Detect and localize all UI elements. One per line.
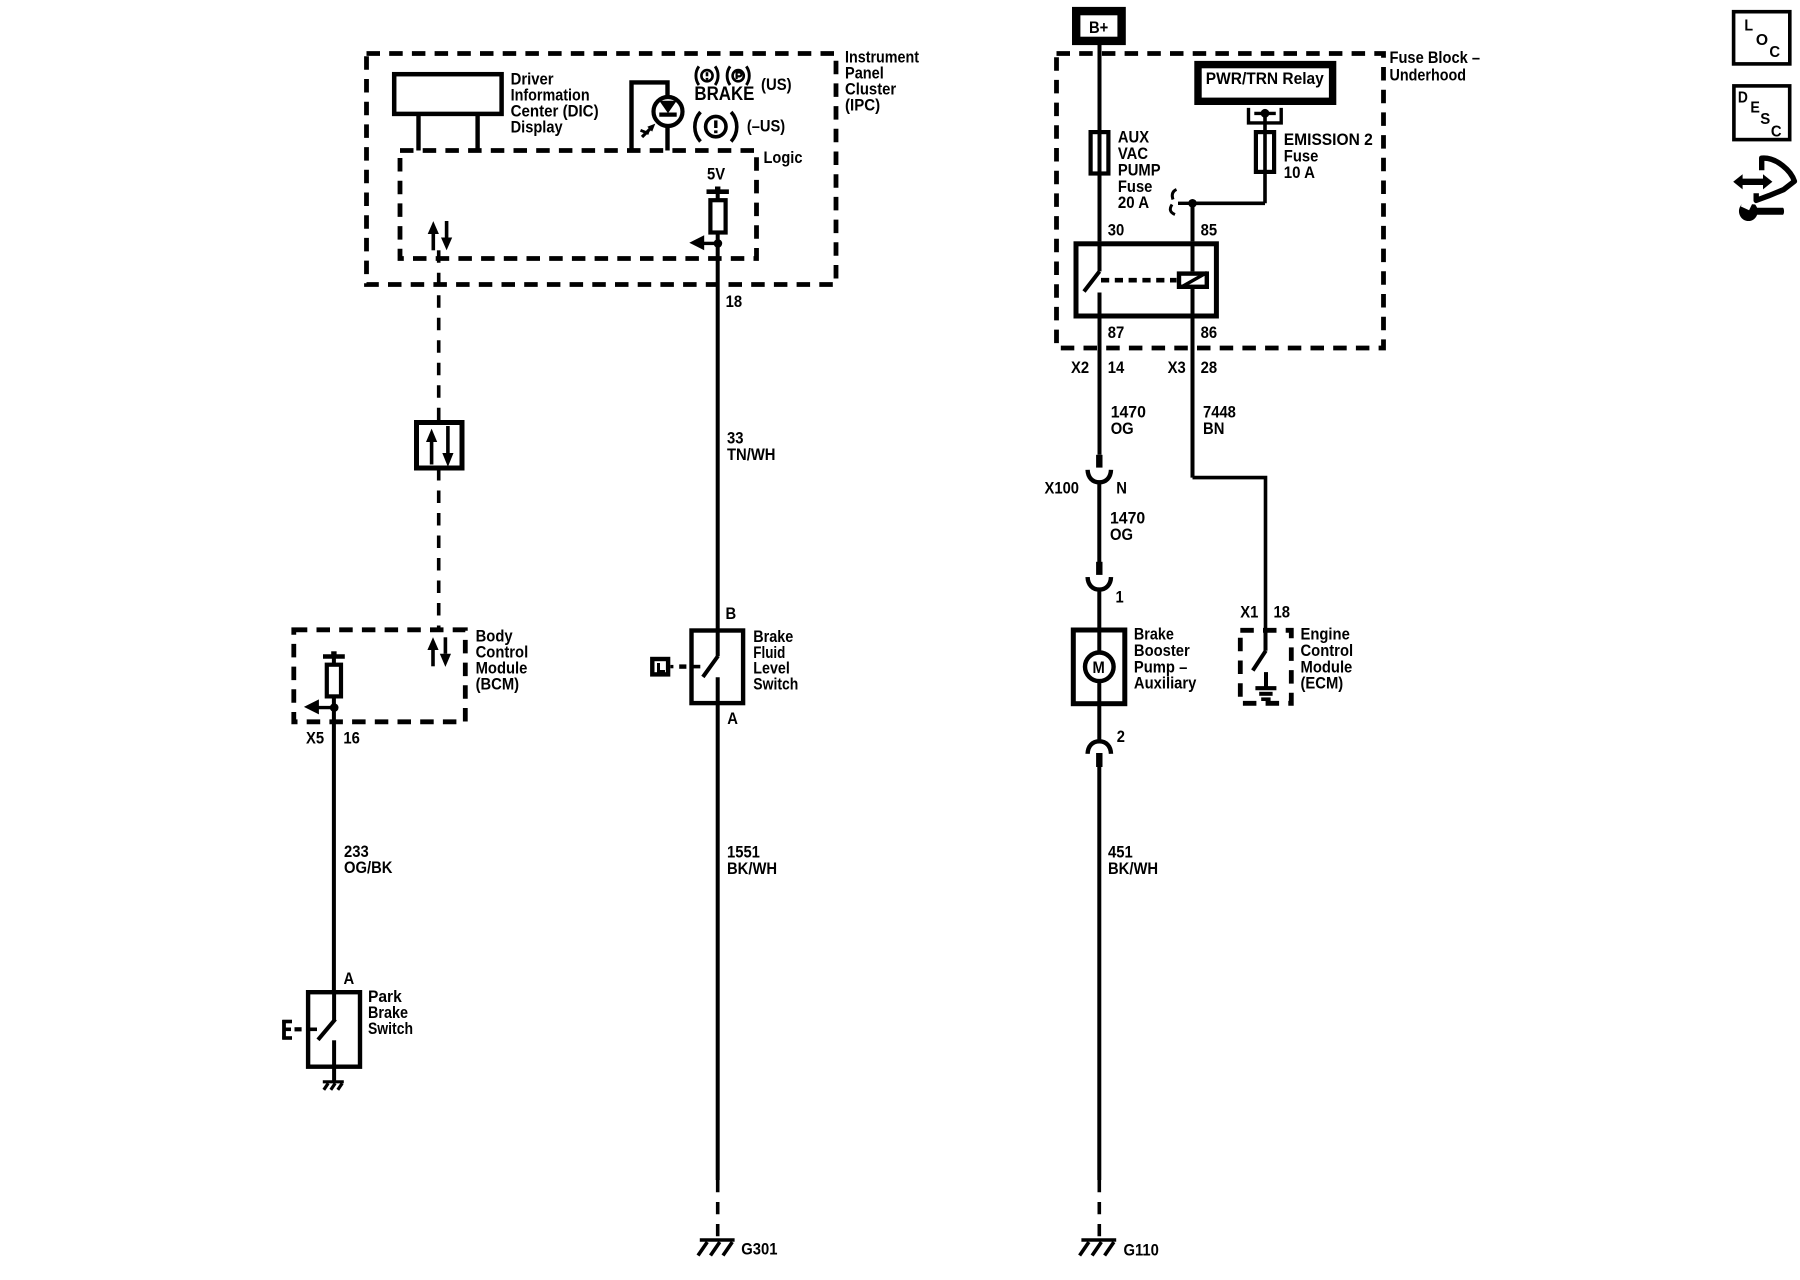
park brake switch blade — [318, 992, 335, 1081]
wire DIC leg right — [475, 114, 479, 151]
brake warning icon (!) (US) — [696, 66, 718, 85]
pin A label park brake — [344, 969, 355, 988]
DIC display box — [394, 74, 501, 114]
wire B+ down — [1098, 45, 1102, 131]
X100 N labels — [1045, 479, 1127, 498]
svg-text:(US): (US) — [761, 75, 792, 94]
svg-text:86: 86 — [1201, 323, 1218, 342]
wire label 1470 OG — [1111, 402, 1146, 437]
LED indicator — [654, 97, 683, 151]
svg-text:28: 28 — [1201, 358, 1218, 377]
dashed wire to G110 — [1098, 1180, 1102, 1239]
svg-text:C: C — [1771, 123, 1782, 140]
up/down arrows in Logic — [428, 221, 453, 250]
dashed wire to G301 — [716, 1180, 720, 1239]
resistor R1 IPC pull-up — [710, 200, 725, 232]
svg-text:OG: OG — [1111, 419, 1134, 438]
relay actuator dashed link — [1101, 278, 1177, 283]
svg-text:M: M — [1093, 658, 1105, 677]
connector labels X2 14 X3 28 — [1071, 358, 1217, 377]
svg-text:20 A: 20 A — [1118, 193, 1149, 212]
svg-text:L: L — [1744, 18, 1753, 35]
svg-text:TN/WH: TN/WH — [727, 445, 776, 464]
fuse block dashed box — [1057, 54, 1384, 349]
wire label 233 OG/BK — [344, 842, 393, 877]
svg-text:14: 14 — [1108, 358, 1125, 377]
wire label 7448 BN — [1203, 402, 1236, 437]
svg-text:OG: OG — [1110, 525, 1133, 544]
connector 1 — [1088, 562, 1124, 607]
wire X100 to conn 1 — [1097, 482, 1101, 562]
brake warning icon ((!)) (-US) — [695, 112, 737, 142]
fuse AUX VAC PUMP 20A — [1091, 131, 1109, 241]
wire conn1 to pump — [1097, 590, 1101, 630]
brake warning icon (P) (US) — [727, 66, 749, 85]
ECM switch — [1253, 628, 1266, 671]
svg-text:Fuse Block –: Fuse Block – — [1390, 48, 1481, 67]
node junction — [330, 703, 339, 712]
motor M — [1085, 630, 1114, 742]
ECM internal ground — [1255, 672, 1276, 699]
Logic dashed box — [400, 151, 757, 259]
wire label 1551 BK/WH — [727, 843, 777, 878]
svg-text:BN: BN — [1203, 419, 1224, 438]
BCM dashed box — [294, 630, 466, 722]
E contact — [282, 1020, 317, 1040]
relay coil — [1179, 241, 1207, 477]
DESC icon — [1734, 86, 1790, 140]
park brake switch box — [308, 992, 360, 1066]
connector labels X1 18 — [1240, 603, 1290, 622]
connector 2 — [1088, 741, 1111, 767]
connector X5 pin 16 labels — [306, 729, 360, 748]
ground park brake switch — [323, 1082, 344, 1090]
svg-text:Logic: Logic — [764, 148, 803, 167]
Logic label — [764, 148, 803, 167]
svg-text:G110: G110 — [1124, 1241, 1159, 1260]
up/down arrows in BCM — [427, 637, 451, 667]
(US) label — [761, 75, 792, 94]
LED lightning arrow — [641, 124, 656, 137]
svg-text:BRAKE: BRAKE — [694, 84, 754, 105]
pin 2 label — [1117, 727, 1125, 746]
dashed wire serial box to BCM — [437, 468, 441, 630]
relay pin labels 30 85 — [1108, 221, 1217, 240]
ground G110 — [1080, 1240, 1117, 1256]
dashed wire logic to serial box — [437, 250, 441, 422]
LED bracket wire — [632, 82, 668, 150]
signal arrow to logic — [689, 235, 718, 250]
IPC dashed box — [367, 54, 837, 285]
connector X100 — [1088, 455, 1111, 483]
svg-text:BK/WH: BK/WH — [1108, 859, 1158, 878]
5V supply tee — [707, 187, 729, 201]
AUX VAC PUMP fuse label — [1118, 128, 1161, 213]
svg-text:X1: X1 — [1240, 603, 1258, 622]
svg-text:30: 30 — [1108, 221, 1125, 240]
svg-text:(ECM): (ECM) — [1301, 674, 1344, 693]
svg-text:5V: 5V — [707, 165, 726, 184]
wire DIC leg left — [416, 114, 420, 151]
svg-text:D: D — [1738, 90, 1748, 107]
BRAKE label — [694, 84, 754, 105]
ECM label — [1301, 625, 1354, 693]
DIC label — [511, 69, 599, 136]
svg-text:C: C — [1769, 44, 1780, 61]
svg-text:(IPC): (IPC) — [845, 95, 880, 114]
svg-text:(BCM): (BCM) — [476, 675, 519, 694]
pump label — [1134, 625, 1197, 693]
brake fluid switch blade — [703, 656, 718, 1180]
brake booster pump box — [1073, 630, 1125, 704]
svg-text:Display: Display — [511, 117, 563, 136]
wire label 1470 OG — [1110, 509, 1145, 544]
svg-text:X2: X2 — [1071, 358, 1089, 377]
relay pin labels 87 86 — [1108, 323, 1217, 342]
wire 18 to B — [716, 233, 720, 657]
5V label — [707, 165, 726, 184]
svg-text:10 A: 10 A — [1284, 163, 1315, 182]
svg-text:O: O — [1756, 32, 1768, 49]
wire 233 OG/BK — [332, 696, 336, 992]
EMISSION 2 fuse label — [1284, 130, 1373, 182]
svg-text:Switch: Switch — [368, 1019, 413, 1038]
PWR/TRN Relay label box — [1198, 65, 1333, 102]
pin 18 label — [726, 292, 743, 311]
wire 7448 BN to ECM — [1193, 478, 1266, 628]
wire label 451 BK/WH — [1108, 843, 1158, 878]
(-US) label — [747, 117, 785, 136]
ground G301 — [698, 1240, 735, 1256]
svg-text:OG/BK: OG/BK — [344, 858, 393, 877]
wire label 33 TN/WH — [727, 428, 776, 464]
L sensor symbol — [652, 659, 700, 674]
pin B label — [726, 604, 737, 623]
BCM supply tee — [323, 651, 345, 664]
svg-text:Underhood: Underhood — [1390, 66, 1467, 85]
IPC label — [845, 47, 919, 114]
ECM dashed box — [1240, 630, 1291, 703]
svg-text:A: A — [344, 969, 355, 988]
serial data box — [417, 423, 463, 469]
svg-text:Auxiliary: Auxiliary — [1134, 674, 1197, 693]
svg-text:2: 2 — [1117, 727, 1125, 746]
svg-text:X100: X100 — [1045, 479, 1080, 498]
resistor R2 BCM pull-up — [327, 665, 341, 697]
G301 label — [741, 1240, 777, 1259]
B+ battery feed — [1076, 11, 1121, 41]
EMISSION 2 fuse holder — [1249, 108, 1282, 132]
svg-text:87: 87 — [1108, 323, 1125, 342]
LOC icon — [1734, 12, 1790, 64]
park brake switch label — [368, 987, 413, 1038]
node junction — [714, 239, 723, 248]
svg-text:A: A — [727, 709, 738, 728]
in-line pigtail connector — [1170, 190, 1176, 215]
wrench nav icon — [1733, 158, 1794, 221]
pin A label — [727, 709, 738, 728]
svg-text:1: 1 — [1116, 588, 1124, 607]
svg-text:Switch: Switch — [753, 674, 798, 693]
svg-text:X5: X5 — [306, 729, 324, 748]
G110 label — [1124, 1241, 1159, 1260]
svg-text:18: 18 — [1274, 603, 1291, 622]
svg-text:18: 18 — [726, 292, 743, 311]
up/down arrows in serial data box — [426, 426, 454, 467]
svg-text:BK/WH: BK/WH — [727, 859, 777, 878]
svg-text:G301: G301 — [741, 1240, 777, 1259]
svg-text:B: B — [726, 604, 737, 623]
fuse block label — [1390, 48, 1481, 85]
svg-text:PWR/TRN Relay: PWR/TRN Relay — [1206, 69, 1324, 88]
svg-text:S: S — [1760, 111, 1770, 128]
svg-text:85: 85 — [1201, 221, 1218, 240]
svg-text:E: E — [1750, 100, 1760, 117]
svg-text:B+: B+ — [1089, 18, 1108, 37]
svg-text:X3: X3 — [1168, 358, 1186, 377]
signal arrow in BCM — [304, 699, 334, 714]
svg-text:(–US): (–US) — [747, 117, 785, 136]
svg-text:N: N — [1116, 479, 1127, 498]
svg-text:16: 16 — [343, 729, 360, 748]
brake fluid level switch box — [692, 631, 744, 704]
relay box — [1076, 244, 1216, 316]
relay switch 30-87 — [1084, 241, 1100, 455]
wire to G110 — [1097, 767, 1101, 1180]
wire fuse2 to coil node — [1178, 199, 1265, 241]
BCM label — [476, 627, 529, 694]
fuse EMISSION 2 10A — [1256, 132, 1274, 203]
brake fluid level switch label — [753, 627, 798, 693]
